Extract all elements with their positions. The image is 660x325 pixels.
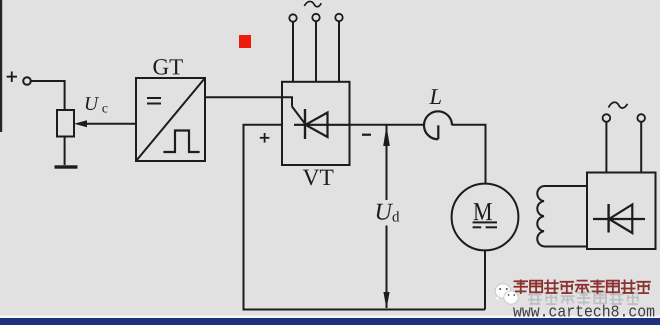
svg-text:GT: GT: [153, 54, 184, 79]
svg-text:d: d: [392, 210, 400, 226]
svg-text:M: M: [473, 197, 493, 226]
svg-text:www.cartech8.com: www.cartech8.com: [513, 304, 655, 323]
svg-text:U: U: [374, 200, 393, 226]
svg-text:U: U: [84, 94, 100, 115]
svg-text:VT: VT: [302, 165, 333, 191]
svg-text:c: c: [102, 100, 108, 115]
svg-text:L: L: [429, 84, 443, 109]
